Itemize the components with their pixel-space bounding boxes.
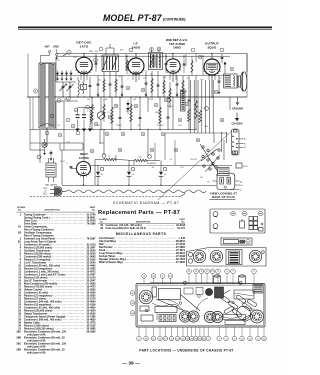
svg-text:29D: 29D bbox=[17, 349, 22, 352]
wires inside chassis bbox=[156, 299, 185, 311]
small parts left bbox=[140, 306, 149, 311]
svg-text:VIEW LOOKING AT: VIEW LOOKING AT bbox=[210, 191, 237, 195]
svg-text:29A: 29A bbox=[17, 331, 22, 334]
wire top bus bbox=[57, 53, 248, 55]
svg-text:3.3: 3.3 bbox=[107, 112, 110, 114]
svg-text:SL-6-S: SL-6-S bbox=[177, 227, 185, 230]
svg-text:BACK OF PLUG: BACK OF PLUG bbox=[212, 195, 235, 199]
svg-text:Wafer (Chassis Mtg.): Wafer (Chassis Mtg.) bbox=[99, 261, 123, 264]
cap by lamp bbox=[50, 150, 52, 156]
callout 5 bbox=[67, 97, 71, 101]
svg-text:PILOT: PILOT bbox=[60, 161, 66, 163]
tuning condenser C1A bbox=[62, 82, 64, 97]
mid rect bbox=[155, 307, 177, 313]
svg-text:2 MEG: 2 MEG bbox=[116, 125, 122, 127]
svg-text:1: 1 bbox=[87, 111, 88, 113]
electrolytic triangles row bbox=[56, 73, 59, 76]
svg-text:30-2295: 30-2295 bbox=[87, 331, 97, 334]
svg-text:1B: 1B bbox=[18, 232, 21, 235]
ballast resistor bbox=[46, 163, 56, 177]
cans on top edge bbox=[214, 276, 221, 284]
svg-text:1A7G: 1A7G bbox=[80, 44, 89, 48]
svg-text:1A: 1A bbox=[18, 226, 21, 229]
svg-text:MISCELLANEOUS PARTS: MISCELLANEOUS PARTS bbox=[116, 232, 167, 236]
svg-text:2: 2 bbox=[165, 92, 166, 94]
wire filament bus bbox=[90, 165, 232, 167]
wire switch cable bus bbox=[180, 132, 227, 134]
extra diag cylinders right bbox=[247, 299, 257, 307]
center sockets bbox=[179, 311, 190, 322]
extra top details bbox=[95, 54, 97, 69]
changeover switch bbox=[202, 146, 204, 148]
diagonal leader bbox=[158, 131, 232, 201]
extra components left-mid bbox=[63, 101, 65, 150]
svg-text:B-: B- bbox=[244, 147, 246, 149]
svg-text:250: 250 bbox=[163, 77, 166, 79]
volume control bbox=[97, 112, 104, 119]
small box below V1 bbox=[81, 85, 87, 90]
strip socket 2 bbox=[210, 250, 222, 262]
svg-text:No.: No. bbox=[182, 221, 186, 223]
svg-text:50 K: 50 K bbox=[243, 166, 248, 168]
power plug bbox=[50, 188, 55, 190]
wire left edge bbox=[27, 54, 29, 98]
extra wires mid-low bbox=[30, 142, 83, 144]
underside callout row bbox=[142, 274, 147, 279]
tube V5 117Z6G bbox=[77, 162, 91, 176]
mid band extra bbox=[127, 100, 129, 103]
svg-text:10: 10 bbox=[185, 91, 187, 93]
wire right edge bbox=[246, 54, 248, 98]
svg-text:.01: .01 bbox=[186, 78, 189, 80]
svg-text:(CONTINUED): (CONTINUED) bbox=[163, 18, 186, 22]
svg-text:DESCRIPTION: DESCRIPTION bbox=[136, 221, 151, 223]
svg-text:ANT: ANT bbox=[45, 46, 51, 49]
tube strip outline bbox=[187, 248, 267, 267]
electrolytic cap 1 bbox=[97, 165, 99, 172]
svg-text:10M: 10M bbox=[155, 112, 159, 114]
svg-text:.01: .01 bbox=[137, 125, 140, 127]
grid cap C4 bbox=[89, 77, 91, 97]
rear view details bbox=[213, 212, 218, 217]
svg-text:D.C.: D.C. bbox=[43, 193, 48, 195]
left cylinder bbox=[152, 287, 157, 297]
field coil bbox=[181, 90, 186, 111]
svg-text:CHASSIS: CHASSIS bbox=[231, 123, 242, 126]
big rect component bbox=[159, 289, 181, 300]
underside extra wires bbox=[152, 303, 183, 310]
power cord bbox=[66, 190, 206, 193]
wire speaker top bbox=[246, 54, 248, 73]
electrolytic cap 3 bbox=[160, 165, 162, 172]
chassis rear view box bbox=[210, 209, 265, 233]
svg-text:VOL: VOL bbox=[97, 125, 101, 127]
svg-text:FIL: FIL bbox=[152, 167, 155, 169]
svg-text:2M: 2M bbox=[126, 111, 129, 113]
underside socket left bbox=[139, 290, 153, 304]
components under T1 bbox=[97, 76, 99, 98]
filament drops under tubes bbox=[80, 75, 82, 81]
grid table bbox=[159, 315, 176, 322]
tube V2 IF 1N5G bbox=[128, 58, 144, 74]
inner chassis outline bbox=[138, 285, 264, 325]
left side callouts bbox=[130, 291, 135, 296]
svg-text:Cone Assembly (For Spkr. SL-52: Cone Assembly (For Spkr. SL-52-1) bbox=[106, 227, 147, 230]
schematic callouts bbox=[57, 99, 61, 103]
svg-text:Replacement Parts — PT-87: Replacement Parts — PT-87 bbox=[98, 210, 180, 216]
tube row gap components bbox=[95, 56, 97, 72]
strip left small sockets bbox=[188, 252, 192, 256]
svg-text:SCHEMATIC DIAGRAM — PT-87: SCHEMATIC DIAGRAM — PT-87 bbox=[113, 201, 179, 205]
header double rule bbox=[18, 26, 272, 28]
callout 1 bbox=[67, 50, 71, 54]
electrolytic cap 2 bbox=[128, 165, 130, 172]
svg-text:.02: .02 bbox=[219, 78, 222, 80]
output transformer bbox=[224, 74, 238, 88]
chassis legend bbox=[236, 113, 238, 119]
svg-text:.004: .004 bbox=[200, 79, 204, 81]
svg-text:45: 45 bbox=[170, 159, 172, 161]
switch cable wires bbox=[189, 80, 191, 133]
strip top box bbox=[221, 238, 252, 245]
svg-text:DESCRIPTION: DESCRIPTION bbox=[45, 209, 60, 211]
wire under-tube bus bbox=[56, 75, 230, 77]
pilot lamp bbox=[42, 142, 47, 147]
ground legend bbox=[237, 98, 239, 105]
horiz rect right bbox=[234, 290, 254, 299]
svg-text:— 39 —: — 39 — bbox=[122, 361, 140, 367]
svg-text:.05: .05 bbox=[143, 78, 146, 80]
svg-text:PART: PART bbox=[90, 206, 96, 209]
tube V1 DET-OSC 1A7G bbox=[76, 57, 92, 73]
svg-text:.005: .005 bbox=[178, 125, 182, 127]
svg-text:1H5G: 1H5G bbox=[173, 46, 182, 50]
svg-text:29C: 29C bbox=[17, 343, 22, 346]
svg-text:PRI: PRI bbox=[95, 51, 98, 53]
svg-text:A.C.: A.C. bbox=[43, 187, 48, 190]
svg-text:FILAMENT: FILAMENT bbox=[147, 162, 157, 165]
strip transformer bbox=[226, 250, 242, 265]
extra wires bbox=[56, 81, 76, 83]
svg-text:.05: .05 bbox=[57, 60, 60, 62]
chassis dashed line bbox=[30, 196, 178, 198]
svg-text:DIAL LAMPS: DIAL LAMPS bbox=[45, 183, 58, 186]
wire bottom return bbox=[62, 185, 216, 187]
svg-text:GND: GND bbox=[53, 46, 59, 49]
junction dots bbox=[83, 96, 84, 97]
svg-text:B-: B- bbox=[208, 181, 210, 183]
components under T2 bbox=[145, 71, 147, 97]
svg-text:76-1997: 76-1997 bbox=[87, 238, 97, 241]
IF transformer T1 bbox=[102, 55, 119, 72]
right socket bbox=[237, 306, 251, 320]
svg-text:GROUND: GROUND bbox=[232, 108, 243, 111]
filament resistor R145 bbox=[134, 159, 147, 161]
stacked rects bottom center bbox=[223, 315, 246, 320]
svg-text:.1: .1 bbox=[127, 79, 129, 81]
switch bottom box bbox=[218, 168, 230, 176]
svg-text:76-1886: 76-1886 bbox=[87, 223, 97, 226]
extra caps row bbox=[218, 76, 220, 91]
IF transformer T2 bbox=[149, 53, 163, 70]
50K resistor box bbox=[236, 163, 242, 168]
tube pin stubs bbox=[91, 68, 92, 71]
svg-text:MODEL PT-87: MODEL PT-87 bbox=[103, 13, 163, 23]
strip socket 3 bbox=[249, 250, 261, 262]
wire mid bus bbox=[28, 96, 247, 98]
tube V4 3Q5G bbox=[204, 59, 220, 75]
svg-text:27-4632: 27-4632 bbox=[176, 261, 186, 264]
diagonal tubular caps bbox=[219, 294, 232, 304]
svg-text:100: 100 bbox=[133, 99, 136, 101]
speaker bbox=[238, 76, 241, 87]
svg-text:.05: .05 bbox=[57, 125, 60, 127]
strip socket 1 bbox=[193, 250, 205, 262]
tuning condenser C1B bbox=[69, 82, 71, 97]
svg-text:1N5G: 1N5G bbox=[132, 45, 141, 49]
battery plug bbox=[231, 129, 239, 155]
svg-text:10 MEG: 10 MEG bbox=[157, 125, 164, 127]
svg-text:29B: 29B bbox=[17, 337, 22, 340]
plug back view bbox=[217, 173, 235, 189]
svg-text:.05: .05 bbox=[98, 80, 101, 82]
underside chassis outline bbox=[136, 284, 265, 328]
top wire w rings bbox=[150, 282, 241, 284]
svg-text:ON-OFF: ON-OFF bbox=[190, 159, 198, 161]
svg-text:REV: REV bbox=[89, 51, 94, 53]
cathode caps cluster bbox=[77, 107, 79, 114]
cap near V4 bbox=[221, 54, 223, 64]
svg-text:volts) part of 8A: volts) part of 8A bbox=[27, 352, 46, 355]
loop antenna bbox=[39, 63, 55, 128]
right dark component bbox=[253, 285, 263, 294]
svg-text:No.: No. bbox=[18, 209, 22, 211]
svg-text:1000: 1000 bbox=[204, 126, 208, 128]
svg-text:A-: A- bbox=[241, 184, 243, 187]
svg-text:250: 250 bbox=[118, 76, 121, 78]
svg-text:No.: No. bbox=[92, 209, 96, 211]
svg-text:1 MEG: 1 MEG bbox=[167, 106, 173, 108]
wire B+ bus bbox=[30, 129, 196, 131]
filament resistor R27 bbox=[103, 158, 116, 160]
svg-text:PART LOCATIONS — UNDERSIDE O: PART LOCATIONS — UNDERSIDE OF CHASSIS PT… bbox=[139, 348, 233, 352]
osc transformer bbox=[78, 80, 79, 95]
underside bottom callouts bbox=[137, 336, 142, 341]
svg-text:.1: .1 bbox=[78, 125, 80, 127]
dark can center-top bbox=[205, 288, 212, 295]
tube V3 1H5G bbox=[166, 59, 180, 73]
extra caps mid-low bbox=[45, 131, 49, 135]
mid components bbox=[91, 97, 93, 130]
svg-text:No.: No. bbox=[100, 221, 104, 223]
svg-text:3Q5G: 3Q5G bbox=[207, 45, 216, 49]
callout 2 bbox=[33, 89, 37, 93]
svg-text:or: or bbox=[44, 190, 46, 193]
bus dots pass3 bbox=[62, 96, 63, 97]
